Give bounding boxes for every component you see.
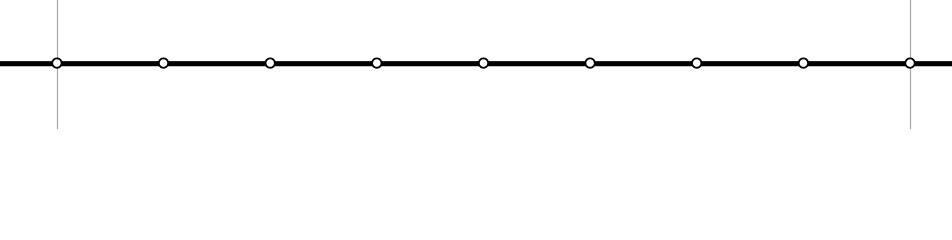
node 3 [266, 58, 275, 67]
node 8 [799, 58, 808, 67]
node 7 [692, 58, 701, 67]
node 5 [479, 58, 488, 67]
left boundary line [57, 0, 59, 129]
node 4 [372, 58, 381, 67]
node 6 [585, 58, 594, 67]
node 1 [52, 58, 61, 67]
wire main horizontal bus [0, 61, 952, 66]
node 2 [159, 58, 168, 67]
node 9 [905, 58, 914, 67]
right boundary line [910, 0, 912, 129]
